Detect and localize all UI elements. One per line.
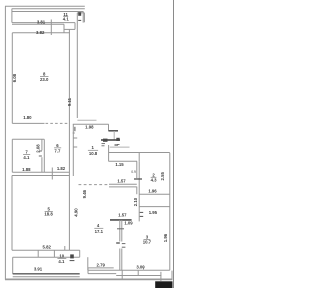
wall x121.8 room divider bbox=[121, 220, 123, 242]
wall thick y220 bbox=[110, 219, 132, 221]
wire dashed y184.4 bbox=[79, 184, 108, 186]
svg-text:1.80: 1.80 bbox=[23, 115, 32, 120]
room 7 top wall bbox=[12, 138, 44, 140]
balcony vertical x54.4 bbox=[53, 250, 55, 257]
duct tick y138 bbox=[73, 137, 77, 139]
wall jog x87.8 bbox=[87, 257, 89, 270]
svg-text:3.82: 3.82 bbox=[36, 30, 45, 35]
entrance thick line y130.8 bbox=[109, 130, 118, 132]
room 11 top wall bbox=[12, 11, 84, 13]
svg-text:2.55: 2.55 bbox=[160, 172, 165, 181]
entrance tick dark y145 bbox=[115, 144, 119, 146]
svg-text:4.1: 4.1 bbox=[63, 16, 70, 21]
balcony strip left bbox=[12, 257, 14, 274]
room 8 right wall x69.8 bbox=[68, 29, 70, 175]
dim tick x64.8 bbox=[64, 246, 66, 250]
svg-text:9.11: 9.11 bbox=[67, 97, 72, 106]
black block bottom right bbox=[155, 281, 172, 288]
wall left outer bbox=[4, 6, 6, 279]
svg-text:9.46: 9.46 bbox=[82, 189, 87, 198]
entrance blob right bbox=[116, 138, 119, 141]
wall y191 room4 bottom bbox=[139, 193, 170, 195]
balcony strip bottom dark bbox=[13, 273, 80, 275]
svg-text:1.88: 1.88 bbox=[22, 167, 31, 172]
entrance vertical x108.5 bbox=[108, 124, 110, 131]
bottom right step bbox=[143, 267, 145, 270]
room 5 right wall x69.4 bbox=[68, 176, 70, 251]
svg-text:3.91: 3.91 bbox=[34, 267, 43, 272]
room 5 top wall y174.5 bbox=[12, 175, 69, 177]
tick x138 bottom bbox=[137, 270, 139, 275]
tick x161 bbox=[160, 272, 162, 276]
room 7 right wall upper bbox=[41, 139, 43, 150]
wall y210.5 bbox=[139, 206, 170, 208]
dim line 1.98 gray bbox=[77, 119, 96, 121]
wall niche right x139.5 bbox=[138, 153, 140, 162]
wall x119.8 room divider bbox=[119, 220, 121, 242]
svg-text:23.0: 23.0 bbox=[40, 77, 49, 82]
room 5 bottom wall bbox=[12, 249, 80, 251]
dim tick x52.3 bbox=[51, 168, 53, 180]
duct wall x73.4 bbox=[72, 124, 74, 176]
svg-text:2.10: 2.10 bbox=[133, 197, 138, 206]
dim crossbar x120 bbox=[117, 228, 124, 230]
wall right outer x169.8 bbox=[169, 153, 171, 270]
svg-text:6.08: 6.08 bbox=[12, 73, 17, 82]
wall top outer double bbox=[5, 5, 85, 7]
svg-text:1.96: 1.96 bbox=[148, 189, 157, 194]
entrance vertical x114.2 bbox=[113, 131, 115, 140]
vertical x172 bottom right bbox=[171, 271, 173, 279]
svg-text:1.98: 1.98 bbox=[85, 125, 94, 130]
bottom line y275.5 right bbox=[116, 275, 161, 277]
wall top right section y152.8 bbox=[109, 152, 170, 154]
dim tick x38.2 bbox=[37, 250, 39, 257]
scan border right edge bbox=[173, 0, 175, 288]
room 7 right wall lower bbox=[41, 157, 43, 172]
entrance small marks bbox=[102, 143, 106, 145]
room 8 bottom wall dashed bbox=[46, 122, 70, 124]
svg-text:1.57: 1.57 bbox=[117, 179, 126, 184]
svg-text:10: 10 bbox=[59, 253, 64, 258]
svg-text:1.95: 1.95 bbox=[149, 210, 158, 215]
balcony strip right bbox=[79, 250, 81, 257]
svg-text:1.96: 1.96 bbox=[163, 233, 168, 242]
wall corridor y124.7 bbox=[73, 123, 109, 125]
room 5 left wall bbox=[11, 176, 13, 251]
wall step vertical x64 bbox=[63, 24, 65, 33]
door tick room7 a bbox=[39, 150, 42, 152]
wall x138.9 lower bbox=[136, 161, 138, 178]
wall y147 bbox=[110, 146, 130, 148]
svg-text:5.82: 5.82 bbox=[43, 245, 52, 250]
wall niche bottom y162.5 bbox=[109, 160, 137, 162]
balcony strip top bbox=[13, 256, 80, 258]
room 11 right wall bbox=[82, 12, 84, 23]
svg-text:1.15: 1.15 bbox=[115, 162, 124, 167]
entrance blob left bbox=[103, 139, 108, 142]
room 7 left wall bbox=[11, 139, 13, 172]
svg-text:2.08: 2.08 bbox=[35, 144, 40, 153]
tick x122 bottom bbox=[121, 270, 123, 279]
entrance door thick y140 bbox=[101, 139, 120, 141]
svg-text:1.09: 1.09 bbox=[124, 221, 133, 226]
wall niche left x109 bbox=[108, 145, 110, 161]
dim tick x51 bbox=[50, 20, 52, 36]
duct tick y147 bbox=[73, 146, 77, 148]
room 8 left wall bbox=[11, 33, 13, 124]
svg-text:3.00: 3.00 bbox=[136, 265, 145, 270]
svg-text:1.57: 1.57 bbox=[118, 212, 127, 217]
room 10 shaft icon bbox=[70, 254, 74, 258]
room 11 shaft icon bbox=[78, 12, 81, 16]
svg-text:7.7: 7.7 bbox=[54, 149, 61, 154]
wall rooms 7/6 bottom y172 bbox=[12, 171, 69, 173]
tick dark y129.5 bbox=[74, 127, 76, 131]
wire solid y183.4 bbox=[109, 183, 137, 185]
door tick room7 b bbox=[39, 155, 42, 157]
svg-text:10.7: 10.7 bbox=[143, 240, 152, 245]
wall x138.9 upper bbox=[138, 161, 140, 221]
bottom line y277 left bbox=[13, 276, 80, 278]
bottom wall right section y270 bbox=[88, 269, 170, 271]
room 11 bottom wall bbox=[12, 22, 75, 24]
svg-text:4.1: 4.1 bbox=[23, 155, 30, 160]
room 11 left wall bbox=[11, 9, 13, 23]
door marks y213-217 bbox=[140, 211, 144, 213]
room 8 top wall bbox=[12, 32, 70, 34]
svg-text:4.90: 4.90 bbox=[74, 208, 79, 217]
porch box bottom bbox=[88, 273, 116, 275]
svg-text:18.8: 18.8 bbox=[44, 212, 53, 217]
wall step vertical x75 bbox=[74, 23, 76, 30]
bottom gray band full bbox=[5, 278, 173, 280]
svg-text:3.81: 3.81 bbox=[37, 19, 46, 24]
svg-text:1.82: 1.82 bbox=[57, 166, 66, 171]
divider door ticks bbox=[116, 242, 120, 244]
wall step horizontal y29 bbox=[64, 28, 75, 30]
porch left vertical bbox=[87, 268, 89, 274]
wall outer right of wing x79 bbox=[76, 13, 78, 118]
door ticks wall x138.9 bbox=[134, 178, 142, 180]
svg-text:10.8: 10.8 bbox=[89, 151, 98, 156]
svg-text:17.1: 17.1 bbox=[95, 229, 104, 234]
svg-text:0.9: 0.9 bbox=[131, 170, 136, 174]
svg-text:2.79: 2.79 bbox=[97, 263, 106, 268]
wall hook top bbox=[77, 12, 84, 14]
wire dim line 3.81 bbox=[12, 23, 64, 25]
svg-text:4.3: 4.3 bbox=[151, 177, 158, 182]
svg-text:4.1: 4.1 bbox=[58, 259, 65, 264]
room 8 bottom wall solid bbox=[12, 122, 44, 124]
